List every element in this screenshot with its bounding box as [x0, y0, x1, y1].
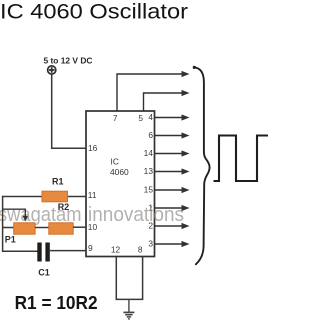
svg-text:8: 8 [138, 245, 143, 255]
wire supply to pin 16 [52, 74, 86, 148]
svg-text:7: 7 [113, 113, 118, 123]
wire pin 7 to arrow [117, 74, 183, 111]
wires pins 12 and 8 to ground bar [116, 257, 142, 300]
wire C1 to pin 9 [50, 250, 86, 252]
svg-text:4: 4 [148, 112, 153, 122]
svg-text:15: 15 [144, 185, 154, 195]
svg-text:1: 1 [148, 203, 153, 213]
wire pin 5 to arrow [144, 93, 183, 111]
resistor R2 [49, 223, 73, 234]
wire R2 to pin 10 [73, 226, 86, 228]
svg-text:IC 4060 Oscillator: IC 4060 Oscillator [0, 0, 188, 24]
svg-text:C1: C1 [38, 267, 50, 277]
svg-text:5: 5 [138, 113, 143, 123]
svg-text:3: 3 [148, 239, 153, 249]
svg-text:13: 13 [144, 166, 154, 176]
svg-text:14: 14 [144, 148, 154, 158]
wire rail to P1 left [2, 227, 14, 229]
watermark swagatam innovations [0, 204, 184, 226]
svg-text:16: 16 [88, 143, 98, 153]
svg-text:R1: R1 [52, 176, 64, 186]
wire R1 row to pin 11 [2, 196, 86, 198]
capacitor C1 [37, 243, 50, 262]
svg-text:4060: 4060 [110, 167, 129, 177]
bottom pin labels [111, 245, 143, 255]
svg-text:5 to 12 V DC: 5 to 12 V DC [44, 55, 93, 65]
svg-text:9: 9 [88, 243, 93, 253]
right pin labels [144, 112, 154, 249]
left pin labels [88, 143, 98, 253]
potentiometer P1 body [14, 223, 35, 234]
svg-text:12: 12 [111, 245, 121, 255]
IC U1 4060 body [86, 111, 155, 257]
arrow pin 5 [182, 90, 190, 96]
svg-text:6: 6 [148, 130, 153, 140]
arrow pin 7 [182, 71, 190, 77]
wire P1 to R2 [35, 227, 49, 229]
svg-text:R2: R2 [58, 202, 70, 212]
wiper wire to P1 [2, 209, 25, 217]
square wave output [214, 136, 269, 182]
resistor R1 [42, 191, 68, 202]
ground [123, 299, 134, 319]
supply node + symbol [48, 66, 56, 74]
left rail wire [2, 196, 4, 252]
wiper arrow [23, 216, 28, 222]
svg-text:2: 2 [148, 221, 153, 231]
wire rail to C1 [2, 250, 38, 252]
right output arrows pins 4 6 14 13 15 1 2 3 [155, 114, 190, 247]
svg-text:11: 11 [88, 190, 97, 200]
svg-text:IC: IC [111, 157, 119, 167]
svg-text:P1: P1 [5, 234, 16, 244]
svg-text:R1 = 10R2: R1 = 10R2 [15, 292, 98, 313]
brace [193, 66, 196, 69]
svg-text:10: 10 [88, 222, 98, 232]
